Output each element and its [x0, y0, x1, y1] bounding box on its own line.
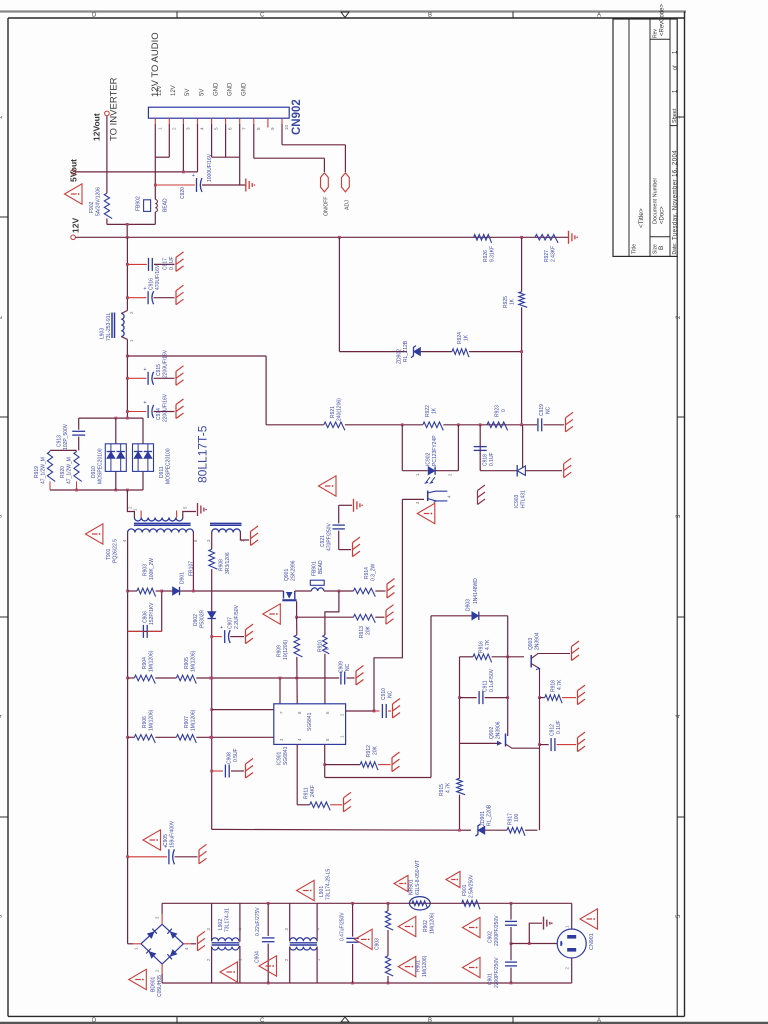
- svg-text:C914: C914: [156, 408, 162, 420]
- svg-text:100K_2W: 100K_2W: [149, 558, 155, 580]
- svg-text:470PF/250V: 470PF/250V: [327, 523, 333, 551]
- svg-text:C921: C921: [320, 535, 326, 547]
- svg-text:MOSPEC20100: MOSPEC20100: [98, 448, 104, 484]
- svg-text:NC: NC: [388, 690, 394, 698]
- svg-text:D: D: [92, 1018, 97, 1024]
- svg-text:SG6841: SG6841: [283, 746, 289, 765]
- svg-text:A: A: [597, 1018, 601, 1024]
- svg-text:C: C: [260, 1018, 265, 1024]
- svg-text:ADJ: ADJ: [345, 200, 351, 210]
- svg-text:D910: D910: [91, 466, 97, 478]
- svg-text:47_1/2W_M: 47_1/2W_M: [67, 457, 73, 484]
- svg-text:R920: R920: [60, 466, 66, 478]
- svg-text:T901: T901: [106, 548, 112, 560]
- svg-text:B: B: [428, 1018, 432, 1024]
- svg-text:73L-253-91L: 73L-253-91L: [106, 312, 112, 341]
- svg-text:C918: C918: [483, 454, 489, 466]
- svg-text:2200PF/250V: 2200PF/250V: [494, 915, 500, 946]
- svg-text:2N3906: 2N3906: [496, 721, 502, 739]
- svg-text:12V: 12V: [71, 218, 81, 233]
- svg-text:L903: L903: [100, 328, 106, 339]
- svg-text:47_1/2W_M: 47_1/2W_M: [41, 457, 47, 484]
- svg-text:D902: D902: [193, 614, 199, 626]
- svg-text:R925: R925: [503, 296, 509, 308]
- svg-text:C917: C917: [163, 258, 169, 270]
- svg-text:1K: 1K: [510, 298, 516, 305]
- svg-text:C903: C903: [375, 938, 381, 950]
- svg-text:9.31KF: 9.31KF: [490, 246, 496, 262]
- svg-text:BD901: BD901: [151, 976, 157, 992]
- svg-text:1N4148WD: 1N4148WD: [473, 578, 479, 604]
- svg-text:10(1206): 10(1206): [283, 640, 289, 660]
- svg-text:R922: R922: [425, 405, 431, 417]
- svg-text:GND: GND: [227, 82, 233, 96]
- svg-text:R909: R909: [277, 645, 283, 657]
- svg-text:F902: F902: [89, 201, 95, 213]
- svg-text:+: +: [144, 286, 147, 292]
- svg-text:3R3/1206: 3R3/1206: [225, 552, 231, 574]
- svg-text:1M(1206): 1M(1206): [422, 955, 428, 977]
- svg-text:GND: GND: [213, 82, 219, 96]
- svg-text:NC: NC: [546, 406, 552, 414]
- svg-text:0.1UF: 0.1UF: [169, 256, 175, 270]
- svg-text:R923: R923: [495, 405, 501, 417]
- svg-text:1K: 1K: [432, 407, 438, 414]
- svg-text:R918: R918: [551, 680, 557, 692]
- svg-text:IC901: IC901: [277, 751, 283, 765]
- svg-text:2N3904: 2N3904: [535, 632, 541, 650]
- svg-text:C: C: [260, 13, 265, 19]
- svg-text:FB901: FB901: [312, 561, 318, 576]
- svg-text:1M(1206): 1M(1206): [430, 912, 436, 934]
- svg-text:4.7K: 4.7K: [485, 639, 491, 650]
- svg-text:1M(1206): 1M(1206): [149, 650, 155, 672]
- svg-text:73L174-29-L5: 73L174-29-L5: [326, 869, 332, 900]
- svg-text:C913: C913: [57, 435, 63, 447]
- svg-text:102P_500V: 102P_500V: [63, 423, 69, 450]
- svg-text:C05UH05: C05UH05: [157, 975, 163, 997]
- svg-text:R915: R915: [439, 784, 445, 796]
- svg-text:R927: R927: [544, 250, 550, 262]
- svg-text:Date:: Date:: [672, 243, 678, 255]
- svg-text:IC903: IC903: [514, 494, 520, 508]
- svg-text:C910: C910: [381, 688, 387, 700]
- svg-text:5V: 5V: [185, 89, 191, 96]
- svg-text:C907: C907: [228, 617, 234, 629]
- svg-text:R924: R924: [457, 332, 463, 344]
- svg-text:159uF/400V: 159uF/400V: [170, 820, 176, 848]
- svg-text:1: 1: [157, 127, 162, 130]
- svg-text:8: 8: [256, 127, 261, 130]
- svg-text:ZD902: ZD902: [397, 349, 403, 364]
- svg-text:of: of: [672, 65, 678, 70]
- svg-text:R911: R911: [304, 787, 310, 799]
- svg-text:0.3_2W: 0.3_2W: [371, 563, 377, 581]
- svg-text:R913: R913: [359, 626, 365, 638]
- svg-text:0.5UF: 0.5UF: [233, 748, 239, 762]
- svg-text:20K: 20K: [366, 625, 372, 635]
- svg-text:C915: C915: [156, 364, 162, 376]
- svg-text:2200UF/16V: 2200UF/16V: [163, 349, 169, 378]
- svg-text:ON/OFF: ON/OFF: [324, 196, 330, 216]
- svg-text:20K: 20K: [373, 745, 379, 755]
- svg-text:A: A: [597, 13, 601, 19]
- svg-text:4: 4: [200, 127, 205, 130]
- svg-text:B: B: [428, 13, 432, 19]
- svg-text:CN901: CN901: [589, 933, 595, 950]
- svg-text:+: +: [144, 400, 147, 406]
- svg-text:C911: C911: [483, 680, 489, 692]
- svg-text:1M(1206): 1M(1206): [191, 650, 197, 672]
- svg-text:SG6841: SG6841: [307, 712, 313, 731]
- svg-text:Sheet: Sheet: [672, 108, 678, 123]
- svg-text:7: 7: [242, 127, 247, 130]
- svg-text:73L174-31: 73L174-31: [225, 908, 231, 932]
- svg-text:12V TO AUDIO: 12V TO AUDIO: [150, 32, 161, 97]
- svg-text:MOSPEC20100: MOSPEC20100: [166, 448, 172, 484]
- svg-text:240(1206): 240(1206): [337, 398, 343, 421]
- svg-text:RL_Z12B: RL_Z12B: [403, 340, 409, 362]
- svg-text:B: B: [658, 246, 665, 250]
- svg-text:C905: C905: [163, 834, 169, 846]
- svg-text:TO INVERTER: TO INVERTER: [109, 77, 120, 141]
- svg-text:<Title>: <Title>: [638, 208, 645, 228]
- svg-text:L901: L901: [319, 886, 325, 897]
- svg-text:0.47uF/250V: 0.47uF/250V: [340, 912, 346, 941]
- svg-text:0.1UF: 0.1UF: [489, 452, 495, 466]
- svg-text:R904: R904: [142, 657, 148, 669]
- svg-text:R921: R921: [330, 406, 336, 418]
- svg-text:C902: C902: [488, 931, 494, 943]
- svg-text:2: 2: [171, 127, 176, 130]
- svg-text:0.22uF/275V: 0.22uF/275V: [255, 907, 261, 936]
- svg-text:NR901: NR901: [409, 879, 415, 895]
- svg-text:R903: R903: [143, 564, 149, 576]
- svg-text:Tuesday, November 16, 2004: Tuesday, November 16, 2004: [672, 150, 678, 240]
- svg-text:0: 0: [501, 409, 507, 412]
- svg-text:D903: D903: [466, 599, 472, 611]
- svg-text:R902: R902: [423, 920, 429, 932]
- svg-text:Q901: Q901: [284, 569, 290, 581]
- svg-text:3: 3: [185, 127, 190, 130]
- svg-text:2.43KF: 2.43KF: [551, 246, 557, 262]
- svg-text:RL_Z20B: RL_Z20B: [487, 804, 493, 826]
- svg-text:R914: R914: [364, 567, 370, 579]
- svg-text:R912: R912: [366, 745, 372, 757]
- svg-text:F901: F901: [462, 884, 468, 896]
- svg-text:80LL17T-5: 80LL17T-5: [196, 425, 210, 483]
- svg-text:2.5A/250V: 2.5A/250V: [469, 874, 475, 898]
- svg-text:0.1uF/50V: 0.1uF/50V: [489, 668, 495, 692]
- svg-text:R916: R916: [479, 641, 485, 653]
- svg-text:5A/24V/1206: 5A/24V/1206: [96, 187, 102, 216]
- svg-text:CN902: CN902: [291, 99, 303, 135]
- svg-text:HTL431: HTL431: [521, 490, 527, 508]
- svg-text:NC: NC: [345, 663, 351, 671]
- svg-text:R905: R905: [184, 657, 190, 669]
- svg-text:Title: Title: [632, 244, 638, 254]
- svg-text:+: +: [192, 173, 195, 179]
- svg-text:BEAD: BEAD: [318, 560, 324, 574]
- svg-text:C906: C906: [143, 611, 149, 623]
- svg-text:12Vout: 12Vout: [92, 113, 102, 141]
- svg-text:100: 100: [514, 813, 520, 822]
- svg-text:C909: C909: [339, 661, 345, 673]
- svg-text:C912: C912: [550, 724, 556, 736]
- svg-text:152P/1KV: 152P/1KV: [149, 602, 155, 625]
- svg-text:R910: R910: [318, 640, 324, 652]
- svg-text:FB902: FB902: [136, 196, 142, 211]
- svg-text:2SK2996: 2SK2996: [291, 560, 297, 581]
- svg-text:BEAD: BEAD: [163, 198, 169, 212]
- svg-text:1K: 1K: [464, 334, 470, 341]
- svg-text:R906: R906: [142, 716, 148, 728]
- svg-text:1M(1206): 1M(1206): [191, 709, 197, 731]
- svg-text:4.7K: 4.7K: [557, 679, 563, 690]
- svg-text:+: +: [144, 367, 147, 373]
- svg-text:4.7K: 4.7K: [446, 782, 452, 793]
- svg-text:2200PF/250V: 2200PF/250V: [494, 957, 500, 988]
- svg-text:5V: 5V: [199, 89, 205, 96]
- svg-text:FR107: FR107: [189, 561, 195, 576]
- svg-text:Q903: Q903: [528, 638, 534, 650]
- svg-text:Rev: Rev: [653, 29, 659, 38]
- svg-text:Q902: Q902: [489, 727, 495, 739]
- svg-text:C919: C919: [539, 404, 545, 416]
- svg-text:D: D: [92, 13, 97, 19]
- svg-text:R926: R926: [483, 250, 489, 262]
- svg-text:R917: R917: [508, 813, 514, 825]
- svg-text:10: 10: [284, 124, 289, 130]
- svg-text:C916: C916: [149, 278, 155, 290]
- svg-text:C920: C920: [180, 187, 186, 199]
- svg-text:6: 6: [228, 127, 233, 130]
- svg-text:1000UF/16V: 1000UF/16V: [207, 153, 213, 182]
- svg-text:P5302R: P5302R: [200, 610, 206, 628]
- svg-text:Document Number: Document Number: [653, 178, 659, 224]
- svg-text:2.2UF/50V: 2.2UF/50V: [234, 604, 240, 629]
- svg-text:GND: GND: [242, 82, 248, 96]
- svg-text:0.1UF: 0.1UF: [556, 720, 562, 734]
- svg-text:2200UF/16V: 2200UF/16V: [163, 393, 169, 422]
- svg-text:C901: C901: [488, 973, 494, 985]
- svg-text:R908: R908: [219, 559, 225, 571]
- svg-text:5Vout: 5Vout: [69, 159, 79, 182]
- svg-text:24KF: 24KF: [310, 785, 316, 797]
- svg-text:L902: L902: [218, 919, 224, 930]
- svg-text:D911: D911: [159, 466, 165, 478]
- svg-text:470UF/16V: 470UF/16V: [155, 264, 161, 290]
- svg-text:1M(1206): 1M(1206): [149, 709, 155, 731]
- svg-text:R901: R901: [416, 960, 422, 972]
- svg-text:D901: D901: [180, 572, 186, 584]
- svg-text:<RevCode>: <RevCode>: [660, 3, 666, 36]
- svg-text:ZD901: ZD901: [480, 811, 486, 826]
- svg-text:R907: R907: [184, 716, 190, 728]
- svg-text:IC902: IC902: [426, 452, 432, 466]
- svg-text:R919: R919: [34, 466, 40, 478]
- svg-text:C904: C904: [255, 951, 261, 963]
- svg-text:9: 9: [270, 127, 275, 130]
- svg-text:C908: C908: [227, 752, 233, 764]
- svg-text:61L5-8-050-WT: 61L5-8-050-WT: [415, 860, 421, 895]
- svg-text:0: 0: [325, 647, 331, 650]
- svg-text:<Doc>: <Doc>: [660, 206, 666, 224]
- svg-text:12V: 12V: [171, 85, 177, 96]
- svg-text:+: +: [220, 625, 223, 631]
- svg-text:PQ26/22.5: PQ26/22.5: [113, 539, 119, 563]
- svg-text:PC123FY24P: PC123FY24P: [432, 435, 438, 466]
- svg-text:5: 5: [214, 127, 219, 130]
